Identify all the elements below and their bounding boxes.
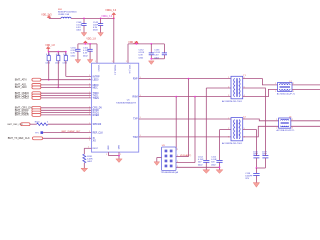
junction: [89, 43, 91, 45]
port BMT_CMD0: [32, 92, 41, 95]
capacitor C150: [77, 44, 79, 49]
port BMT_CMD2: [32, 96, 41, 99]
svg-text:C154: C154: [198, 157, 204, 159]
wire VDDA_3.3 rail: [71, 17, 114, 19]
svg-text:2: 2: [275, 91, 276, 93]
svg-text:VDD1A(CT): VDD1A(CT): [180, 154, 191, 157]
svg-text:1: 1: [228, 118, 229, 120]
svg-text:TXD1: TXD1: [93, 95, 100, 97]
wire to U1 VDD pin: [96, 44, 98, 63]
svg-text:REF_CLK: REF_CLK: [93, 133, 104, 135]
wire BMT_ATN: [41, 79, 92, 81]
ground: [154, 162, 160, 166]
svg-text:0402: 0402: [46, 63, 51, 65]
svg-text:0402: 0402: [83, 55, 88, 57]
svg-text:C153: C153: [154, 50, 160, 52]
svg-text:50V: 50V: [198, 162, 202, 164]
svg-text:1: 1: [95, 61, 96, 63]
svg-text:1: 1: [275, 83, 276, 85]
wire MDI0+: [292, 84, 320, 86]
capacitor C148: [83, 18, 85, 23]
svg-text:1: 1: [89, 139, 90, 141]
port BMT_CMD1: [32, 94, 41, 97]
ground: [81, 168, 88, 172]
svg-text:1: 1: [112, 61, 113, 63]
svg-text:3: 3: [228, 137, 229, 139]
svg-text:VDD_3V3: VDD_3V3: [41, 14, 52, 16]
svg-text:6.3V: 6.3V: [76, 27, 81, 29]
port BMT_AD1: [32, 83, 41, 86]
junction: [48, 51, 50, 53]
wire BMT_RXER: [41, 114, 92, 116]
ground: [116, 159, 122, 163]
svg-text:C155: C155: [211, 157, 217, 159]
svg-text:LED0: LED0: [93, 80, 99, 82]
svg-text:1: 1: [276, 119, 277, 121]
port BMT_RXD1: [32, 111, 41, 114]
svg-text:1: 1: [106, 154, 107, 156]
svg-text:1: 1: [89, 131, 90, 133]
svg-text:4.7K: 4.7K: [63, 54, 68, 56]
wire RXM: [139, 96, 231, 98]
ground: [203, 170, 210, 174]
svg-text:1: 1: [177, 161, 178, 163]
wire T1 center tap: [206, 87, 231, 89]
capacitor C151: [89, 44, 91, 49]
svg-text:VDDIO: VDDIO: [97, 65, 99, 72]
svg-text:1: 1: [89, 114, 90, 116]
svg-text:2KV: 2KV: [245, 178, 249, 180]
power symbol VDDA_3.3: [113, 13, 115, 19]
svg-text:ACT45B-510-2P-TL: ACT45B-510-2P-TL: [277, 129, 296, 132]
svg-text:TXP: TXP: [133, 119, 138, 121]
power symbol VDD_1.8 right: [135, 41, 137, 44]
svg-text:L3: L3: [289, 117, 292, 119]
wire T2 center tap right: [243, 130, 257, 156]
capacitor C154: [203, 159, 209, 161]
svg-text:6.3V: 6.3V: [154, 55, 159, 57]
wire VDD_1.8 rail right: [128, 43, 164, 45]
svg-text:1: 1: [89, 111, 90, 113]
wire BMT_CMD2: [41, 97, 92, 99]
capacitor C149: [100, 18, 102, 23]
junction: [136, 43, 138, 45]
svg-text:1: 1: [89, 137, 90, 139]
wire BMT_CRS_DV: [41, 107, 92, 109]
svg-text:1: 1: [177, 155, 178, 157]
svg-text:C148: C148: [76, 22, 82, 24]
ground: [216, 170, 223, 174]
wire R149 to U1 INTRP: [65, 61, 67, 77]
wire U1 GND pins: [108, 152, 110, 156]
svg-text:10NF: 10NF: [262, 154, 268, 156]
resistor R149: [65, 52, 67, 56]
wire T2 to L3 top: [243, 119, 279, 121]
ferrite bead FB1: [61, 17, 71, 18]
junction: [113, 18, 115, 20]
wire REF_CLK: [43, 132, 91, 134]
wire cap join: [151, 58, 164, 60]
wire to U1 XI: [43, 137, 92, 139]
svg-text:C157: C157: [262, 151, 268, 153]
junction: [150, 43, 152, 45]
capacitor C153: [163, 44, 165, 53]
wire U3 pin4: [176, 166, 220, 168]
wire BMT_AD0: [41, 86, 92, 88]
svg-text:RXD1: RXD1: [93, 113, 100, 115]
svg-text:TPD4E02B04DQA: TPD4E02B04DQA: [161, 171, 179, 174]
svg-text:CRS_DV: CRS_DV: [93, 108, 103, 110]
svg-text:BMT_25MHZ_OUT: BMT_25MHZ_OUT: [62, 131, 82, 133]
ground: [75, 60, 81, 64]
svg-text:XI: XI: [93, 138, 96, 140]
wire MDI1-: [291, 125, 320, 127]
svg-text:0402: 0402: [198, 164, 203, 166]
port BMT_TX_REF_CLK: [32, 137, 42, 140]
svg-text:T1: T1: [243, 75, 246, 77]
svg-text:0402: 0402: [63, 63, 68, 65]
svg-text:6.3V: 6.3V: [93, 27, 98, 29]
svg-text:0402: 0402: [211, 164, 216, 166]
svg-text:1: 1: [89, 78, 90, 80]
wire: [30, 123, 37, 125]
svg-text:INTRP: INTRP: [93, 76, 100, 78]
inductor L2: [278, 83, 293, 92]
svg-text:1: 1: [177, 149, 178, 151]
svg-text:RXP: RXP: [133, 79, 138, 81]
wire: [49, 17, 61, 19]
svg-text:6.3V: 6.3V: [83, 53, 88, 55]
svg-text:10NF: 10NF: [253, 154, 259, 156]
junction: [194, 96, 196, 98]
svg-text:1: 1: [120, 154, 121, 156]
capacitor C152: [150, 44, 152, 53]
svg-text:6.3V: 6.3V: [71, 53, 76, 55]
capacitor C156: [253, 155, 259, 157]
svg-text:3: 3: [228, 95, 229, 97]
svg-text:1: 1: [89, 94, 90, 96]
junction: [83, 18, 85, 20]
resistor R151 6.49K: [83, 154, 86, 163]
wire T1 to L2 bottom: [243, 89, 278, 96]
power symbol VDD_1.8 pullups: [47, 47, 49, 52]
svg-text:ALT4532M-201-T001: ALT4532M-201-T001: [222, 100, 243, 103]
svg-text:0402: 0402: [139, 57, 144, 59]
svg-text:1: 1: [89, 109, 90, 111]
svg-text:1: 1: [126, 61, 127, 63]
power symbol VDD_1.8: [84, 41, 86, 44]
svg-text:R151: R151: [87, 156, 93, 158]
svg-text:MDC: MDC: [93, 87, 99, 89]
svg-text:0: 0: [47, 122, 49, 124]
svg-text:TXM: TXM: [133, 137, 138, 139]
svg-text:R150: R150: [35, 121, 41, 123]
svg-text:1: 1: [89, 97, 90, 99]
svg-text:VDD_1.8: VDD_1.8: [45, 45, 55, 47]
wire R148 to BMT_AD0: [57, 61, 59, 88]
ground: [149, 61, 155, 65]
svg-text:3: 3: [293, 91, 294, 93]
svg-text:0.1UF: 0.1UF: [198, 159, 204, 161]
junction: [100, 18, 102, 20]
svg-text:2: 2: [228, 128, 229, 130]
svg-text:1: 1: [89, 106, 90, 108]
wire MDI1+: [291, 120, 320, 122]
svg-text:6.3V: 6.3V: [139, 55, 144, 57]
svg-text:1: 1: [89, 86, 90, 88]
svg-text:XO: XO: [93, 141, 97, 143]
wire T2 to L3 bottom: [243, 126, 279, 137]
port BMT_AD0: [32, 86, 41, 89]
wire MDI0-: [292, 88, 320, 90]
svg-text:REXT: REXT: [93, 148, 99, 150]
wire BMT_CMD1: [41, 95, 92, 97]
svg-text:BMT_REF_CLK: BMT_REF_CLK: [8, 124, 24, 126]
svg-text:4.7K: 4.7K: [56, 54, 61, 56]
svg-text:GND: GND: [107, 145, 109, 150]
wire pullup rail: [48, 51, 66, 53]
svg-text:RXD0: RXD0: [93, 110, 100, 112]
junction: [256, 167, 258, 169]
junction: [57, 87, 59, 89]
svg-text:50V: 50V: [211, 162, 215, 164]
svg-text:1: 1: [89, 92, 90, 94]
svg-text:SPD100: SPD100: [93, 124, 102, 126]
wire R147 to BMT_ATN: [48, 61, 50, 80]
svg-text:RXM: RXM: [132, 97, 137, 99]
wire drop to U3 pin3: [194, 97, 196, 163]
svg-text:0.1UF: 0.1UF: [211, 159, 217, 161]
wire T1 to L2 top: [243, 79, 278, 85]
port BMT_ATN: [32, 78, 41, 81]
svg-text:0.1UF: 0.1UF: [76, 24, 82, 26]
svg-text:MDIO: MDIO: [93, 85, 99, 87]
transformer T2: [231, 118, 243, 141]
svg-text:1: 1: [89, 123, 90, 125]
wire to U1: [48, 123, 92, 125]
svg-text:0402: 0402: [87, 161, 92, 163]
wire TXP: [139, 118, 231, 120]
svg-text:VDDA_3.3: VDDA_3.3: [105, 9, 117, 12]
junction: [85, 43, 87, 45]
svg-text:TP1: TP1: [35, 133, 40, 135]
wire BMT_RXD1: [41, 112, 92, 114]
svg-text:0.1UF: 0.1UF: [83, 50, 89, 52]
capacitor C157: [262, 155, 268, 157]
wire VDD_1.8 rail: [78, 43, 97, 45]
chassis ground: [255, 176, 257, 183]
ground: [98, 33, 104, 37]
capacitor C158 2KV: [255, 168, 257, 173]
svg-text:FB1: FB1: [58, 9, 63, 11]
svg-text:1: 1: [89, 84, 90, 86]
junction: [150, 58, 152, 60]
svg-text:TXEN: TXEN: [93, 98, 99, 100]
wire REXT: [84, 147, 91, 149]
wire T2 center tap: [220, 129, 232, 131]
ground: [81, 33, 87, 37]
power symbol VDD_3V3: [48, 16, 50, 19]
wire T1 center tap right: [243, 88, 266, 153]
junction: [57, 51, 59, 53]
ground: [87, 60, 93, 64]
port BMT_RXER: [32, 113, 41, 116]
svg-text:C158: C158: [245, 173, 251, 175]
svg-text:C149: C149: [93, 22, 99, 24]
port BMT_RXD0: [32, 109, 41, 112]
svg-text:T2: T2: [243, 116, 246, 118]
svg-text:2: 2: [276, 127, 277, 129]
wire: [118, 156, 120, 159]
resistor R150: [37, 123, 48, 126]
svg-text:ALT4532M-201-T001: ALT4532M-201-T001: [222, 142, 243, 145]
junction: [118, 155, 120, 157]
capacitor C155: [216, 159, 222, 161]
wire to U1 VDDA pin: [113, 18, 115, 63]
svg-text:3: 3: [292, 127, 293, 129]
port BMT_CRS_DV: [32, 106, 41, 109]
junction: [65, 51, 67, 53]
wire drop to U3 pin1: [175, 97, 177, 151]
resistor R148: [57, 52, 59, 56]
svg-text:C156: C156: [253, 151, 259, 153]
junction: [48, 79, 50, 81]
svg-text:1000PF: 1000PF: [245, 175, 253, 177]
svg-text:VDDA_3.3: VDDA_3.3: [101, 15, 113, 18]
svg-text:CURR 2.2A: CURR 2.2A: [58, 13, 70, 16]
svg-text:BMT_TX_REF_CLK: BMT_TX_REF_CLK: [8, 137, 30, 140]
junction: [175, 96, 177, 98]
wire TXM: [139, 136, 231, 138]
svg-text:1: 1: [228, 77, 229, 79]
svg-text:VDD_1.8: VDD_1.8: [128, 65, 130, 74]
resistor R147: [48, 52, 50, 56]
junction: [219, 166, 221, 168]
wire to U1 VDD_1.8 pin: [127, 44, 129, 63]
svg-text:0603: 0603: [93, 30, 98, 32]
transformer T1: [231, 76, 243, 99]
svg-text:0402: 0402: [76, 30, 81, 32]
svg-text:0402: 0402: [55, 63, 60, 65]
inductor L3: [279, 118, 291, 128]
port BMT_REF: [21, 123, 30, 126]
wire: [83, 163, 85, 168]
wire cap join: [255, 153, 257, 156]
svg-text:BLM18PG121SN1D: BLM18PG121SN1D: [58, 11, 77, 13]
junction: [188, 78, 190, 80]
op-amp U1 KSZ8081 PHY: [92, 63, 139, 152]
svg-text:VDD_1.8: VDD_1.8: [86, 39, 96, 41]
wire RXP: [139, 78, 231, 80]
wire BMT_CMD0: [41, 92, 92, 94]
svg-text:C152: C152: [139, 50, 145, 52]
svg-text:RXER: RXER: [93, 115, 100, 117]
svg-text:0.1UF: 0.1UF: [139, 52, 145, 54]
svg-text:BMT_ATN: BMT_ATN: [15, 78, 27, 82]
diode array U3: [162, 147, 177, 171]
wire drop to U3 pin2: [188, 79, 190, 157]
wire BMT_RXD0: [41, 109, 92, 111]
svg-text:2: 2: [228, 87, 229, 89]
svg-text:10UF: 10UF: [93, 24, 99, 26]
svg-text:6.49K: 6.49K: [87, 158, 93, 160]
svg-text:1: 1: [89, 75, 90, 77]
wire BMT_AD1: [41, 84, 92, 86]
svg-text:1: 1: [177, 166, 178, 168]
svg-text:0402: 0402: [71, 55, 76, 57]
svg-text:0.1UF: 0.1UF: [154, 52, 160, 54]
svg-text:TXD0: TXD0: [93, 93, 100, 95]
wire U3 gnd: [157, 157, 162, 159]
svg-text:C150: C150: [71, 48, 77, 50]
svg-text:0.1UF: 0.1UF: [71, 50, 77, 52]
svg-text:4.7K: 4.7K: [46, 54, 51, 56]
svg-text:C151: C151: [83, 48, 89, 50]
